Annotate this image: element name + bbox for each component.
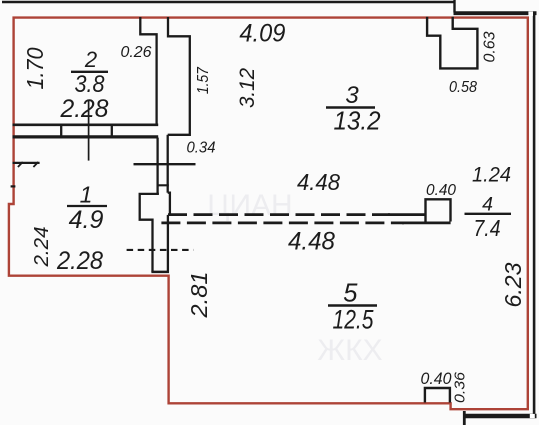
wall room1 lower right line [167,215,169,273]
svg-text:12.5: 12.5 [333,304,375,334]
svg-text:2.24: 2.24 [30,227,53,268]
outer black top line [2,1,455,3]
svg-text:0.63: 0.63 [482,31,499,62]
fraction bar room 3 [326,106,375,108]
right outer black bar [533,12,536,418]
room5 top wall lower dashed line [161,222,404,225]
svg-text:3.12: 3.12 [236,68,259,108]
bottom black bar vertical [463,411,466,425]
svg-text:ЖКХ: ЖКХ [317,334,382,367]
svg-text:1: 1 [80,181,93,207]
wall room1 right upper right line [167,135,169,193]
dimension extension line [88,100,90,161]
wall room2 bottom lower line [13,135,159,138]
wall bottom connector [151,271,169,274]
wall hall left jog [168,17,190,135]
svg-text:2: 2 [84,47,97,72]
door jamb left [140,194,159,272]
svg-text:13.2: 13.2 [334,106,381,136]
top-right step vertical [453,0,455,13]
wall connector tick [157,184,169,186]
svg-text:0.40: 0.40 [421,370,453,388]
bottom-right black bar [463,414,537,418]
svg-text:4.48: 4.48 [297,169,340,195]
tick on red wall [11,185,16,187]
svg-text:ЦИАН: ЦИАН [207,189,292,222]
dim line room1 left [13,162,40,164]
svg-text:4.9: 4.9 [69,206,104,234]
svg-text:0.40: 0.40 [426,182,456,199]
dim tick a [18,162,23,167]
svg-text:6.23: 6.23 [500,262,526,307]
niche box 0.40 [426,199,451,221]
wall room2 right [140,17,156,126]
wall room2 bottom upper line [13,123,159,126]
dim tick b [33,162,38,167]
bottom notch box [425,388,450,403]
watermark [207,189,382,367]
svg-text:4.09: 4.09 [239,20,285,48]
corner marker top-right [528,12,533,16]
svg-text:0.36: 0.36 [452,371,469,403]
dashed line room1 bottom [127,249,194,251]
room5 top wall upper dashed line [168,213,390,216]
fraction bar room 2 [71,71,108,73]
svg-text:1.70: 1.70 [22,47,48,89]
fraction bar room 5 [328,304,377,307]
svg-text:1.24: 1.24 [472,162,511,186]
door jamb right [168,193,170,216]
room5 top wall upper solid end [388,213,425,216]
dim line 0.34 [134,163,196,165]
svg-text:0.58: 0.58 [449,79,477,96]
fraction bar room 1 [67,205,107,207]
wall room1 right upper left line [156,138,158,194]
svg-text:2.28: 2.28 [56,247,103,275]
svg-text:4: 4 [482,194,493,216]
top-right black bar [454,11,537,15]
ventilation shaft top right [427,17,477,69]
svg-text:1.57: 1.57 [195,66,212,94]
wall tick b [111,124,113,138]
fraction bar room 4 [465,213,512,215]
svg-text:7.4: 7.4 [474,215,501,241]
wall tick a [60,124,62,138]
svg-text:2.28: 2.28 [60,95,109,123]
room5 top wall lower solid end [402,222,451,225]
svg-text:0.26: 0.26 [121,44,152,61]
corner marker bottom-right [530,414,535,418]
svg-text:0.34: 0.34 [187,140,216,157]
svg-text:4.48: 4.48 [288,228,335,256]
svg-text:2.81: 2.81 [186,272,212,319]
